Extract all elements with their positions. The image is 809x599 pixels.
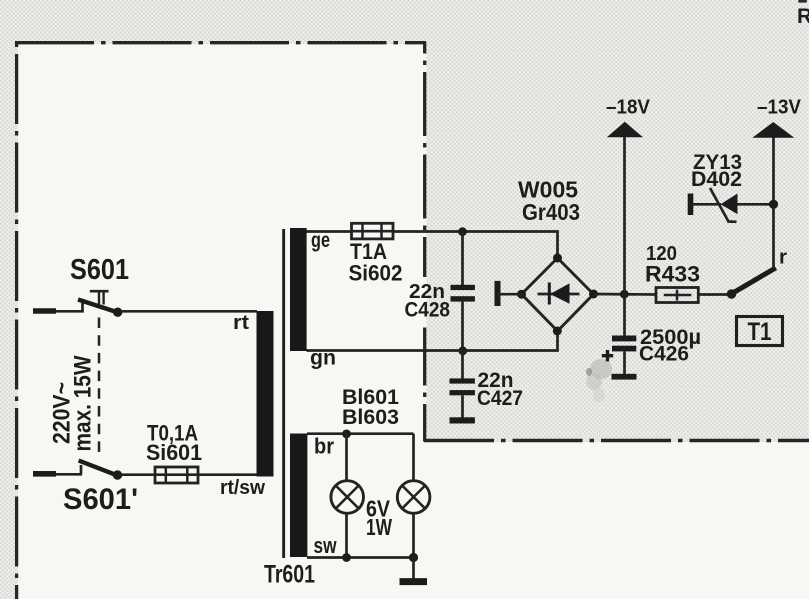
- wire chassis terminal to bridge: [498, 293, 522, 296]
- node gn/C427 junction: [458, 346, 467, 355]
- wire bridge DC- to rail: [594, 293, 657, 296]
- node bridge right vertex: [589, 290, 598, 299]
- node ground junction: [409, 553, 418, 562]
- transformer Tr601 primary winding: [257, 311, 274, 477]
- node ge/C428 junction: [458, 227, 467, 236]
- ground stem: [412, 558, 415, 579]
- transformer Tr601 secondary winding (ge/gn): [290, 228, 307, 351]
- node bridge bottom vertex: [553, 327, 562, 336]
- svg-text:r: r: [779, 247, 787, 269]
- svg-text:Si602: Si602: [349, 261, 403, 286]
- chassis border left (dash-dot): [15, 42, 18, 599]
- wire fuse Si602 to bridge AC1: [393, 232, 558, 259]
- chassis border top (dash-dot): [15, 41, 426, 44]
- capacitor C427: [450, 351, 475, 424]
- node: mains input stub L: [33, 308, 56, 314]
- node zener/-13V junction: [769, 200, 778, 209]
- T1 region border left lower segment (dash-dot): [423, 322, 426, 442]
- svg-text:–18V: –18V: [606, 97, 651, 119]
- cut glyph fragment above R: [798, 0, 807, 3]
- node: mains input stub L2: [33, 471, 56, 477]
- wire lamp Bl603 to ground node: [412, 513, 415, 558]
- wire zener D402 to -13V rail: [738, 203, 772, 206]
- wire lamp Bl601 to sw tap: [345, 513, 348, 558]
- svg-text:C427: C427: [477, 387, 523, 410]
- C426 polarity +: [602, 350, 613, 361]
- svg-text:rt: rt: [233, 312, 249, 334]
- svg-text:D402: D402: [691, 168, 742, 191]
- wire down to lamp Bl603: [412, 434, 415, 481]
- fuse Si602: [352, 223, 394, 239]
- box T1: [737, 317, 783, 346]
- wire S601' to fuse Si601: [122, 473, 156, 476]
- switch S601' lever: [79, 461, 115, 475]
- switch S601 actuator tick 1: [98, 292, 100, 305]
- svg-text:Gr403: Gr403: [522, 199, 580, 225]
- node switch r pivot: [727, 289, 737, 299]
- -18V arrow: [607, 122, 643, 138]
- wire br tap to lamps: [307, 432, 414, 435]
- svg-text:–13V: –13V: [757, 97, 802, 119]
- svg-text:S601': S601': [63, 483, 138, 516]
- white area below T1 chassis region: [427, 442, 809, 599]
- bridge internal diode cathode bar: [548, 283, 551, 305]
- svg-text:R: R: [797, 5, 809, 28]
- T1 region border bottom (dash-dot): [424, 439, 809, 443]
- svg-text:Bl603: Bl603: [342, 405, 399, 429]
- wire stub to switch S601: [56, 310, 84, 313]
- -18V rail wire: [623, 137, 626, 294]
- svg-text:S601: S601: [70, 254, 129, 286]
- zener D402 triangle: [721, 194, 738, 215]
- svg-text:C426: C426: [639, 342, 689, 366]
- node lamp Bl601 top junction: [342, 430, 351, 439]
- node -18V rail junction: [620, 290, 629, 299]
- T1 region border left (dash-dot): [423, 42, 426, 277]
- wire sw tap: [307, 556, 414, 559]
- svg-text:1W: 1W: [366, 514, 392, 540]
- white interior of mains section: [18, 44, 427, 599]
- switch S601 actuator tick 2: [102, 292, 104, 305]
- scan smudge near C426: [586, 359, 612, 402]
- svg-text:C428: C428: [405, 299, 451, 322]
- transformer Tr601 lamp winding (br/sw): [290, 434, 307, 558]
- zener D402 cathode slash: [710, 188, 737, 222]
- switch S601' pivot node: [113, 470, 122, 479]
- capacitor C428: [451, 232, 475, 351]
- wire R433 to switch contact: [698, 293, 729, 296]
- chassis terminal left of bridge: [495, 281, 501, 306]
- bridge internal diode triangle: [550, 283, 570, 303]
- switch S601 lever: [78, 300, 115, 312]
- svg-text:Tr601: Tr601: [264, 561, 315, 589]
- lamp Bl603: [397, 481, 430, 514]
- ground: [400, 578, 428, 585]
- node bridge left vertex: [517, 290, 526, 299]
- svg-text:max. 15W: max. 15W: [70, 355, 97, 451]
- switch S601' fixed contact jog: [80, 465, 83, 474]
- wire chassis to zener D402: [691, 203, 722, 206]
- lamp Bl601: [331, 481, 364, 514]
- wire stub to switch S601': [56, 473, 82, 476]
- node lamp Bl601 bottom junction: [342, 553, 351, 562]
- -13V rail wire: [772, 138, 775, 269]
- node bridge top vertex: [553, 254, 562, 263]
- switch S601 fixed contact jog: [81, 303, 84, 312]
- svg-text:Si601: Si601: [146, 440, 202, 465]
- resistor R433: [656, 288, 698, 303]
- wire gn tap to bridge AC2: [307, 331, 558, 351]
- wire S601 to transformer primary (rt): [122, 310, 258, 313]
- fuse Si601: [155, 467, 198, 483]
- svg-text:R433: R433: [645, 262, 700, 287]
- svg-text:sw: sw: [314, 533, 338, 558]
- svg-text:br: br: [314, 434, 334, 459]
- wire ge tap to fuse Si602: [307, 230, 353, 233]
- rectifier bridge Gr403 diamond: [522, 258, 594, 331]
- switch r lever: [732, 268, 776, 294]
- wire fuse Si601 to transformer primary (rt/sw): [198, 473, 257, 476]
- chassis terminal of D402: [688, 194, 694, 216]
- -13V arrow: [752, 122, 794, 138]
- switch S601 actuator bar: [90, 290, 109, 293]
- transformer Tr601 core: [282, 229, 285, 558]
- wire down to lamp Bl601: [345, 434, 348, 481]
- svg-text:rt/sw: rt/sw: [220, 477, 265, 499]
- bridge internal diode lead: [538, 293, 580, 296]
- capacitor C426 (electrolytic): [612, 294, 637, 379]
- mechanical linkage (dashed) S601-S601': [98, 318, 101, 460]
- switch S601 pivot node: [113, 308, 122, 317]
- svg-text:T1: T1: [748, 318, 772, 346]
